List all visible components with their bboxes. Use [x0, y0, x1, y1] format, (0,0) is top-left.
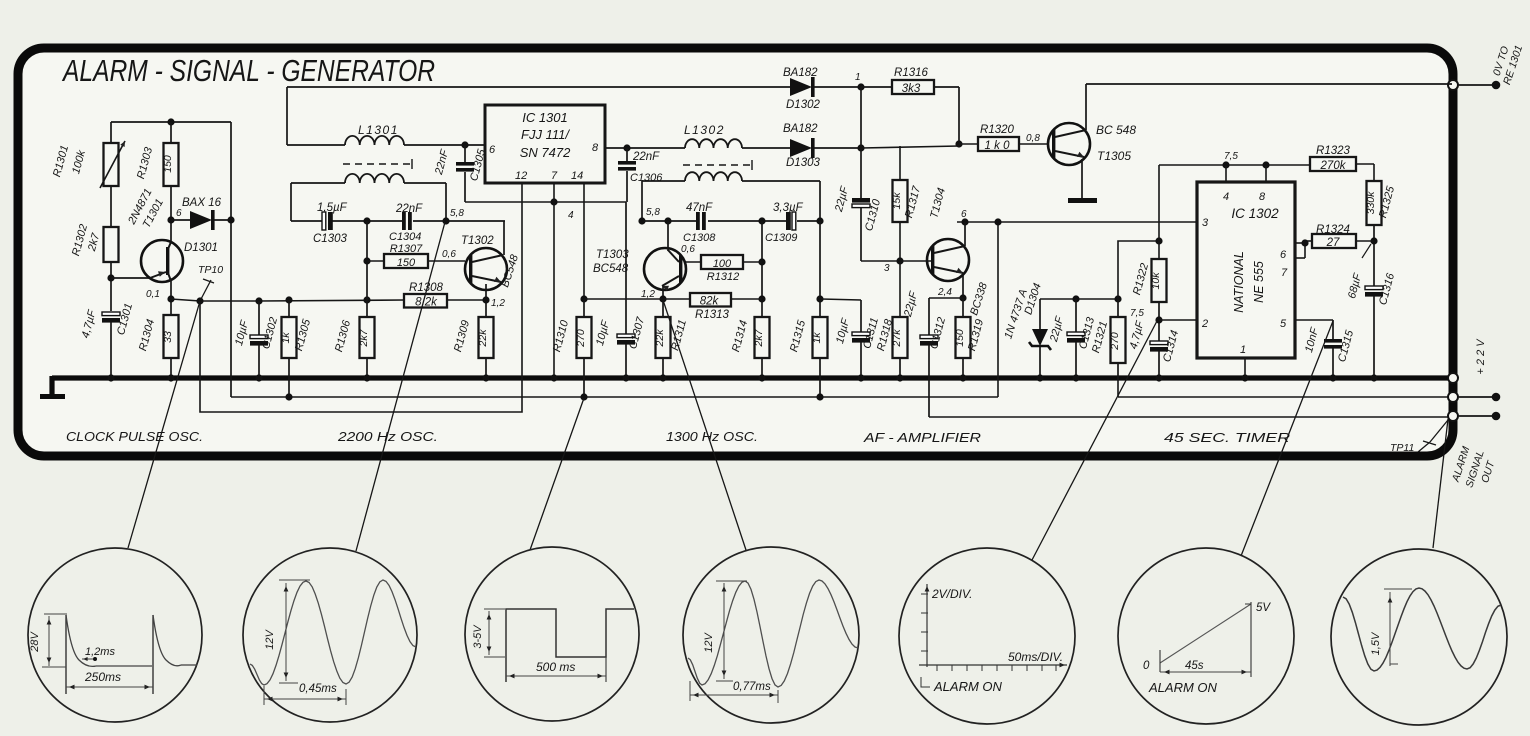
- svg-text:0: 0: [1143, 660, 1150, 672]
- capacitor C1311: [821, 299, 870, 382]
- label IC1302: [1231, 206, 1279, 221]
- svg-text:C1308: C1308: [683, 232, 716, 244]
- wire 7.5V rail: [1159, 161, 1310, 259]
- label C1301: [80, 302, 135, 339]
- waveform 1300Hz sine: [688, 580, 858, 687]
- svg-text:1,5µF: 1,5µF: [317, 202, 348, 214]
- svg-text:7,5: 7,5: [1130, 308, 1144, 319]
- svg-text:D1302: D1302: [786, 99, 820, 111]
- svg-text:8.2k: 8.2k: [415, 297, 438, 309]
- wire C1305 to C1307 line: [465, 198, 626, 205]
- resistor R1325: [1365, 181, 1397, 225]
- resistor R1321: [1090, 299, 1125, 380]
- axis ticks: [921, 594, 1056, 671]
- leader to circle6: [1241, 321, 1333, 556]
- svg-text:7: 7: [551, 170, 558, 182]
- capacitor C1309: [786, 212, 796, 230]
- label 12V c2: [264, 629, 276, 650]
- label 1,2ms: [82, 646, 115, 661]
- transistor T1304: [900, 239, 969, 281]
- label 28V: [29, 631, 41, 653]
- svg-text:FJJ 111/: FJJ 111/: [521, 127, 570, 142]
- svg-text:150: 150: [954, 329, 966, 347]
- diode D1303: [790, 138, 865, 158]
- svg-text:4: 4: [1223, 191, 1229, 203]
- title ALARM - SIGNAL - GENERATOR: [61, 53, 435, 88]
- label 5,8 osc1: [450, 208, 464, 219]
- wire T1302 emitter: [482, 284, 489, 317]
- svg-text:C1306: C1306: [630, 172, 663, 184]
- svg-text:6: 6: [1280, 249, 1287, 261]
- waveform output sine: [1343, 588, 1501, 671]
- svg-text:3-5V: 3-5V: [472, 624, 484, 649]
- svg-text:BA182: BA182: [783, 123, 818, 135]
- label C1315: [1336, 328, 1356, 363]
- label 7,5 top: [1224, 151, 1238, 162]
- label 3: [884, 263, 890, 274]
- wire diode rail to T1305 base feed: [861, 146, 959, 148]
- wire osc2 tank line: [638, 217, 823, 224]
- svg-text:28V: 28V: [29, 631, 41, 653]
- label T1301: [126, 187, 155, 228]
- svg-text:1: 1: [1240, 344, 1246, 356]
- label 5V: [1256, 602, 1271, 614]
- pin 8 IC1302: [1259, 191, 1266, 203]
- pin 6 IC1301: [489, 144, 496, 156]
- dim 045ms: [264, 686, 346, 705]
- svg-text:T1303: T1303: [596, 249, 629, 261]
- label 0: [1143, 660, 1150, 672]
- svg-text:T1302: T1302: [461, 235, 494, 247]
- svg-text:C1303: C1303: [313, 233, 347, 245]
- label BC548 T1305: [1096, 123, 1136, 137]
- resistor R1314: [730, 317, 769, 382]
- wire R1307 left: [367, 260, 384, 262]
- capacitor C1302: [250, 301, 268, 382]
- resistor R1307: [384, 243, 465, 269]
- resistor R1315: [788, 221, 827, 401]
- svg-text:0,77ms: 0,77ms: [733, 681, 771, 693]
- svg-text:27k: 27k: [891, 329, 903, 348]
- label 0V TO RE1301: [1491, 44, 1525, 87]
- wire IC1302 pin5: [1295, 320, 1333, 339]
- label R1301: [51, 144, 88, 178]
- pin 7 IC1301: [551, 170, 558, 182]
- svg-text:TP11: TP11: [1390, 442, 1414, 454]
- axes 2V/DIV: [919, 584, 1067, 667]
- svg-text:R1323: R1323: [1316, 145, 1350, 157]
- resistor R1308: [404, 282, 447, 309]
- resistor R1317: [891, 146, 923, 265]
- wire zener node: [1040, 295, 1122, 302]
- test point TP10: [171, 264, 223, 301]
- svg-text:270: 270: [575, 329, 587, 348]
- capacitor C1312: [920, 298, 938, 417]
- label 7,5 pin2: [1130, 308, 1144, 319]
- label C1311: [834, 316, 881, 350]
- svg-text:R1312: R1312: [707, 271, 739, 283]
- label BA182 D1303: [783, 123, 818, 135]
- capacitor C1315: [1324, 339, 1342, 382]
- svg-text:3,3µF: 3,3µF: [773, 202, 804, 214]
- dim 12V c4: [716, 581, 747, 681]
- label D1304: [1022, 282, 1043, 317]
- svg-text:R1324: R1324: [1316, 224, 1350, 236]
- leader to circle3: [530, 398, 584, 550]
- IC U1301: [485, 105, 605, 183]
- wire osc1 tank line: [291, 217, 505, 224]
- label R1302: [70, 223, 102, 257]
- svg-text:ALARM ON: ALARM ON: [1148, 680, 1218, 695]
- wire T1301 emitter: [167, 281, 174, 315]
- svg-text:47nF: 47nF: [686, 202, 713, 214]
- svg-text:1 k 0: 1 k 0: [985, 140, 1011, 152]
- label 1,2 osc1: [491, 298, 505, 309]
- label ALARM SIGNAL OUT: [1450, 445, 1498, 489]
- svg-text:250ms: 250ms: [84, 670, 121, 684]
- wire R1302 to base node: [107, 262, 150, 311]
- transistor T1301: [141, 240, 183, 282]
- pin 8 IC1301: [592, 142, 599, 154]
- wire R1320 to T1305 base: [1019, 143, 1048, 145]
- resistor R1306: [333, 317, 374, 382]
- label C1302: [233, 316, 280, 350]
- capacitor C1307: [617, 202, 635, 382]
- wire IC1302 pin8: [1265, 165, 1267, 182]
- waveform square: [506, 609, 634, 682]
- label IC1301: [520, 110, 571, 160]
- label C1307: [594, 315, 647, 350]
- resistor R1319: [954, 298, 986, 382]
- resistor R1316: [861, 67, 934, 95]
- pin 14 IC1301: [571, 170, 583, 182]
- wire IC1302 pin4: [1225, 165, 1227, 182]
- leader to circle1: [128, 301, 200, 548]
- wire diode join: [860, 87, 862, 148]
- svg-text:AF - AMPLIFIER: AF - AMPLIFIER: [863, 431, 981, 445]
- svg-text:2k7: 2k7: [358, 328, 370, 347]
- label C1306: [630, 151, 663, 184]
- svg-text:1,2: 1,2: [491, 298, 505, 309]
- dim 45s: [1160, 670, 1251, 675]
- svg-text:22k: 22k: [477, 329, 489, 348]
- pin 1 IC1302: [1240, 344, 1246, 356]
- label 4 pin14: [568, 210, 574, 221]
- wire T1305 collector: [1086, 84, 1452, 130]
- wire T1302 collector: [503, 221, 505, 255]
- label +22V: [1475, 338, 1487, 375]
- svg-text:NE 555: NE 555: [1252, 261, 1266, 303]
- label 45s: [1185, 660, 1204, 672]
- svg-text:6: 6: [489, 144, 496, 156]
- wire R1312 to base: [684, 261, 701, 263]
- label 50ms/DIV: [1008, 650, 1063, 664]
- wire T1303 collector: [667, 221, 669, 251]
- wire clock line TP10 to IC1301 pin12: [200, 184, 522, 412]
- svg-text:4: 4: [568, 210, 574, 221]
- svg-text:45s: 45s: [1185, 660, 1204, 672]
- test point TP11: [1390, 420, 1448, 454]
- svg-text:12V: 12V: [264, 629, 276, 650]
- label T1305: [1097, 149, 1131, 163]
- wire clock osc top: [111, 118, 231, 143]
- label 0,45ms: [299, 683, 337, 695]
- dim 28V: [42, 614, 67, 667]
- label C1303: [313, 202, 348, 245]
- label 0,6 osc2: [681, 244, 695, 255]
- svg-text:7: 7: [1281, 267, 1288, 279]
- label T1303: [593, 249, 629, 275]
- resistor R1309: [452, 317, 493, 382]
- svg-text:BA182: BA182: [783, 67, 818, 79]
- svg-text:10k: 10k: [1150, 272, 1162, 290]
- diode D1302: [790, 77, 865, 97]
- node x367 divider: [363, 221, 370, 317]
- node D1301 cathode rail: [230, 122, 232, 397]
- svg-text:L1301: L1301: [358, 123, 399, 137]
- label C1305: [433, 147, 489, 182]
- svg-text:5: 5: [1280, 318, 1287, 330]
- label 12V c4: [703, 632, 715, 653]
- label T1301b: [141, 197, 166, 230]
- svg-text:14: 14: [571, 170, 583, 182]
- svg-text:33: 33: [162, 331, 174, 343]
- svg-text:D1303: D1303: [786, 157, 820, 169]
- svg-text:8: 8: [592, 142, 599, 154]
- svg-text:BC548: BC548: [593, 263, 629, 275]
- svg-text:8: 8: [1259, 191, 1266, 203]
- svg-text:D1301: D1301: [184, 242, 218, 254]
- capacitor C1305: [456, 145, 474, 202]
- resistor R1312: [701, 255, 762, 283]
- label D1303: [786, 157, 820, 169]
- label 0,6 osc1: [442, 249, 456, 260]
- svg-text:+ 2 2 V: + 2 2 V: [1475, 338, 1487, 375]
- tick alarm start: [921, 677, 930, 687]
- inductor L1301 core: [343, 159, 412, 169]
- capacitor C1306: [618, 148, 636, 202]
- wire R1323 to R1325: [1356, 164, 1374, 181]
- schematic frame: [18, 48, 1453, 456]
- label 250ms: [84, 670, 121, 684]
- svg-text:R1313: R1313: [695, 309, 729, 321]
- label BAX16: [182, 197, 222, 209]
- diode D1301: [171, 210, 235, 230]
- label 10nF: [1303, 325, 1321, 354]
- pin 12 IC1301: [515, 170, 527, 182]
- wire T1305 emitter ground: [1068, 159, 1097, 203]
- label 500 ms: [536, 660, 575, 674]
- label 45 SEC. TIMER: [1164, 431, 1290, 445]
- wire zener node to 7.5 rail: [1118, 237, 1163, 299]
- ramp 45s: [1160, 602, 1251, 677]
- resistor R1323: [1310, 145, 1356, 172]
- ground: [40, 376, 65, 399]
- svg-text:6: 6: [961, 209, 967, 220]
- svg-text:2k7: 2k7: [753, 328, 765, 347]
- label BA182 D1302: [783, 67, 818, 79]
- label T1302: [461, 235, 494, 247]
- leader to circle4: [663, 300, 746, 550]
- node x762 divider: [758, 221, 765, 317]
- label 1: [855, 72, 861, 83]
- label 6: [176, 208, 182, 219]
- svg-text:27: 27: [1326, 237, 1340, 249]
- wire 6V rail: [957, 218, 1197, 225]
- label T1304: [928, 187, 948, 220]
- svg-text:1,5V: 1,5V: [1370, 631, 1382, 655]
- label 0,77ms: [733, 681, 771, 693]
- label L1301: [358, 123, 399, 137]
- resistor R1305: [280, 300, 313, 401]
- svg-text:12V: 12V: [703, 632, 715, 653]
- resistor R1301: [100, 141, 125, 188]
- leader to circle7: [1433, 419, 1448, 548]
- pin 2 IC1302: [1201, 318, 1208, 330]
- inductor L1302 core: [683, 160, 752, 170]
- waveform 2200Hz sine: [250, 580, 416, 685]
- capacitor C1303: [322, 212, 333, 230]
- svg-text:2V/DIV.: 2V/DIV.: [931, 587, 972, 601]
- wire clock output line: [196, 296, 486, 304]
- svg-text:500 ms: 500 ms: [536, 660, 575, 674]
- svg-text:5V: 5V: [1256, 602, 1271, 614]
- label 0,1: [146, 289, 160, 300]
- svg-text:7,5: 7,5: [1224, 151, 1238, 162]
- scope circle 4: [683, 547, 859, 723]
- svg-text:150: 150: [162, 155, 174, 173]
- svg-text:5,8: 5,8: [646, 207, 660, 218]
- svg-text:1300 Hz OSC.: 1300 Hz OSC.: [666, 430, 758, 444]
- pin 6 IC1302: [1280, 249, 1287, 261]
- svg-text:50ms/DIV.: 50ms/DIV.: [1008, 650, 1063, 664]
- label 3-5V: [472, 624, 484, 649]
- svg-text:BAX 16: BAX 16: [182, 197, 222, 209]
- svg-text:R1316: R1316: [894, 67, 928, 79]
- capacitor C1310: [852, 148, 900, 261]
- svg-text:ALARM - SIGNAL - GENERATOR: ALARM - SIGNAL - GENERATOR: [61, 53, 435, 88]
- inductor L1301 bottom winding: [291, 174, 446, 221]
- svg-text:R1320: R1320: [980, 124, 1014, 136]
- waveform clock pulse: [66, 615, 197, 694]
- wire T1304 emitter: [929, 275, 967, 302]
- label ALARM ON c6: [1148, 680, 1218, 695]
- label L1302: [684, 123, 725, 137]
- label 1,5V: [1370, 631, 1382, 655]
- svg-text:0,6: 0,6: [681, 244, 695, 255]
- inductor L1302 top winding: [685, 139, 790, 148]
- leader to circle2: [356, 222, 445, 551]
- wire IC pin8 to L1302: [605, 144, 685, 151]
- svg-text:T1305: T1305: [1097, 149, 1131, 163]
- terminal mid: [1448, 392, 1500, 402]
- svg-text:330k: 330k: [1365, 191, 1377, 215]
- capacitor C1314: [1150, 341, 1168, 382]
- svg-text:12: 12: [515, 170, 527, 182]
- wire osc1 top rail: [287, 87, 790, 145]
- label AF-AMPLIFIER: [863, 431, 981, 445]
- svg-text:22k: 22k: [654, 329, 666, 348]
- resistor R1304: [137, 315, 178, 358]
- svg-text:45 SEC. TIMER: 45 SEC. TIMER: [1164, 431, 1290, 445]
- wire R1316 to R1320 node: [934, 87, 963, 148]
- wire +22V bus: [52, 375, 1452, 380]
- wire 0V line left segment: [231, 222, 998, 397]
- resistor R1313: [690, 293, 731, 321]
- svg-text:2: 2: [1201, 318, 1208, 330]
- resistor R1302: [104, 227, 119, 262]
- wire IC1301 pin14: [580, 183, 587, 303]
- wire R1301-R1302: [110, 186, 112, 227]
- label 2V/DIV: [931, 587, 972, 601]
- dim 12V c2: [279, 580, 310, 683]
- wire T1304 collector: [964, 222, 966, 246]
- svg-text:3k3: 3k3: [902, 83, 921, 95]
- svg-text:SN 7472: SN 7472: [520, 145, 571, 160]
- label C1312: [902, 289, 948, 350]
- pin 5 IC1302: [1280, 318, 1287, 330]
- capacitor C1308: [696, 212, 706, 230]
- resistor R1310: [551, 299, 591, 401]
- svg-text:0,8: 0,8: [1026, 133, 1040, 144]
- label 1N4737A: [1002, 288, 1029, 341]
- inductor L1301 top winding: [287, 136, 485, 149]
- svg-text:0,6: 0,6: [442, 249, 456, 260]
- wire R1325 to node: [1370, 225, 1377, 286]
- scope circle 6: [1118, 548, 1294, 724]
- transistor T1303: [644, 248, 686, 291]
- label C1310: [833, 184, 884, 232]
- svg-text:100: 100: [713, 258, 732, 270]
- dim 500ms: [506, 674, 606, 679]
- wire alarm output line: [929, 416, 1452, 418]
- dim 250ms: [66, 685, 153, 690]
- svg-text:NATIONAL: NATIONAL: [1232, 251, 1246, 313]
- scope circle 1: [28, 548, 202, 722]
- capacitor C1301: [102, 312, 120, 382]
- pin 7 IC1302: [1281, 267, 1288, 279]
- label C1308: [683, 202, 716, 244]
- label D1301: [184, 242, 218, 254]
- terminal ALARM SIGNAL OUT: [1448, 411, 1500, 421]
- svg-text:270: 270: [1109, 332, 1121, 351]
- svg-text:C1304: C1304: [389, 231, 421, 243]
- pin 4 IC1302: [1223, 191, 1229, 203]
- wire IC1302 pin1 to bus: [1241, 358, 1248, 382]
- resistor R1322: [1131, 259, 1166, 302]
- label CLOCK PULSE OSC.: [66, 430, 203, 444]
- wire 0V line right segment: [1118, 380, 1452, 397]
- wire T1303 emitter: [659, 286, 666, 303]
- label 0,8: [1026, 133, 1040, 144]
- label 2,4: [937, 287, 952, 298]
- svg-text:3: 3: [884, 263, 890, 274]
- transistor T1305: [1048, 123, 1090, 165]
- svg-text:1: 1: [855, 72, 861, 83]
- resistor R1311: [654, 299, 689, 382]
- label 68uF: [1346, 244, 1371, 300]
- svg-text:22nF: 22nF: [395, 203, 423, 215]
- label 5,8 osc2: [646, 207, 660, 218]
- svg-text:R1307: R1307: [390, 243, 423, 255]
- capacitor C1313: [1067, 299, 1085, 382]
- inductor L1302 bottom winding: [642, 172, 820, 221]
- svg-text:1k: 1k: [280, 332, 292, 344]
- label C1314: [1128, 319, 1181, 364]
- label BC548 T1302: [499, 252, 521, 289]
- label 6 rail: [961, 209, 967, 220]
- transistor T1302: [465, 248, 507, 290]
